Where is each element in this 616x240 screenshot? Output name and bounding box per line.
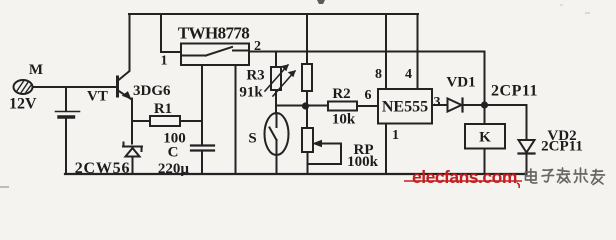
svg-text:C: C bbox=[168, 145, 179, 161]
svg-text:1: 1 bbox=[392, 128, 399, 143]
svg-text:TWH8778: TWH8778 bbox=[178, 24, 249, 43]
svg-text:2CP11: 2CP11 bbox=[541, 139, 583, 155]
svg-text:R2: R2 bbox=[332, 86, 350, 102]
svg-text:VD1: VD1 bbox=[446, 75, 475, 91]
svg-text:R1: R1 bbox=[154, 101, 172, 117]
svg-text:3DG6: 3DG6 bbox=[133, 83, 171, 99]
svg-text:S: S bbox=[248, 131, 256, 147]
svg-text:100k: 100k bbox=[347, 154, 379, 170]
svg-text:R3: R3 bbox=[246, 68, 264, 84]
svg-text:2: 2 bbox=[254, 39, 261, 54]
svg-text:NE555: NE555 bbox=[382, 99, 428, 116]
svg-text:12V: 12V bbox=[9, 96, 37, 113]
svg-text:VT: VT bbox=[87, 89, 108, 105]
svg-text:elecfans.com: elecfans.com bbox=[412, 167, 517, 187]
svg-text:8: 8 bbox=[375, 67, 382, 82]
svg-text:2CW56: 2CW56 bbox=[75, 160, 131, 177]
svg-text:K: K bbox=[479, 130, 491, 146]
svg-text:10k: 10k bbox=[332, 112, 356, 128]
svg-text:4: 4 bbox=[405, 67, 412, 82]
svg-text:6: 6 bbox=[365, 88, 372, 103]
svg-text:3: 3 bbox=[434, 95, 441, 110]
svg-text:220µ: 220µ bbox=[158, 161, 190, 177]
svg-text:M: M bbox=[29, 62, 43, 78]
svg-text:91k: 91k bbox=[239, 85, 263, 101]
svg-text:2CP11: 2CP11 bbox=[491, 83, 538, 100]
svg-text:1: 1 bbox=[161, 54, 168, 69]
